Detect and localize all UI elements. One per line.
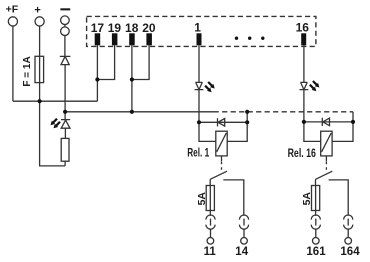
switch blade Rel16 [316, 171, 333, 179]
wire 1 down to LED1 [198, 45, 200, 82]
freewheeling diode line Rel16 [304, 121, 353, 123]
connector 11 (plug/socket arcs) [206, 215, 215, 220]
terminal +F [0, 0, 1, 1]
wire +F to bus1 [12, 26, 14, 101]
terminal circle 14 [241, 238, 248, 245]
terminal circle 161 [313, 238, 320, 245]
terminal - (double circle) [61, 16, 70, 25]
LED16 arrows [313, 81, 320, 88]
wire + to fuse [39, 26, 41, 56]
junction bus1/fuse [38, 99, 42, 103]
LED power arrows [51, 119, 58, 126]
wire through fuse F1 [39, 56, 41, 101]
bus2 corner down to Rel16 loop [352, 112, 354, 122]
svg-text:+F: +F [6, 4, 19, 16]
wire through fuse Rel1 [209, 186, 211, 211]
coil loop right Rel1 [227, 122, 247, 141]
LED power indicator (bar top, triangle up, arrows left) [64, 112, 66, 120]
svg-text:19: 19 [108, 21, 122, 35]
wire 16 down to LED16 [303, 45, 305, 82]
terminal circle 164 [345, 238, 352, 245]
svg-text:164: 164 [340, 246, 360, 258]
contact right wire Rel16 [329, 180, 349, 216]
terminal 17 block [95, 33, 101, 45]
relay coil K16 [321, 131, 332, 156]
LED1 arrows [208, 82, 215, 89]
wire fuse to connector 161 [315, 211, 317, 216]
terminal 16 block [301, 33, 306, 45]
wire 17 down to bus1 [96, 45, 98, 101]
relay coil K1 [216, 131, 227, 156]
ellipsis dots between 1 and 16 [235, 37, 238, 40]
junction node A1 [197, 120, 201, 124]
diode V1 (bar top, triangle up) [60, 56, 71, 64]
junction node A16 [302, 120, 306, 124]
wire fuse branch down [40, 101, 66, 166]
wire node B1 up to bus2 [246, 112, 248, 123]
svg-text:5A: 5A [301, 192, 313, 206]
junction bus2/minus [63, 110, 67, 114]
mechanical link Rel16 (dashed) [325, 162, 327, 171]
wire pivot to fuse 5A Rel1 [209, 179, 211, 185]
svg-text:1: 1 [194, 21, 201, 35]
terminal 20 block [146, 33, 152, 45]
terminal 18 block [129, 33, 135, 45]
svg-text:161: 161 [306, 246, 326, 258]
coil loop right Rel16 [332, 122, 353, 141]
svg-text:Rel. 1: Rel. 1 [187, 148, 209, 160]
terminal + [35, 17, 44, 26]
junction node B16 [351, 120, 355, 124]
dashed module box [87, 16, 316, 46]
coil loop left Rel1 [199, 122, 216, 141]
svg-text:18: 18 [125, 21, 139, 35]
connector 164 (plug/socket arcs) [344, 215, 353, 220]
wire resistor to return [64, 161, 66, 166]
terminal 1 block [197, 33, 202, 45]
svg-text:17: 17 [91, 21, 105, 35]
svg-text:Rel. 16: Rel. 16 [288, 148, 316, 160]
bus2 dashed continuation [219, 111, 353, 113]
wire - to diode V1 [64, 36, 66, 57]
fuse F1 body [35, 56, 44, 82]
svg-text:F = 1A: F = 1A [22, 56, 33, 86]
freewheeling diode line Rel1 [199, 121, 247, 123]
contact right wire Rel1 [223, 180, 244, 216]
junction 18 on bus2 [130, 110, 134, 114]
svg-text:11: 11 [204, 246, 217, 258]
coil K1 bottom stub [221, 156, 223, 161]
terminal circle 11 [207, 238, 214, 245]
wire 20 join 18 [132, 45, 149, 79]
wire LED1 to node A1 [198, 90, 200, 123]
diode D1 (bar left, triangle apex left) [218, 118, 225, 126]
wire pivot to fuse 5A Rel16 [315, 179, 317, 185]
fuse 5A Rel16 body [312, 186, 320, 211]
coil K16 bottom stub [325, 156, 327, 161]
junction node B1 [245, 120, 249, 124]
resistor R1 [61, 138, 69, 161]
junction node B1 top [245, 110, 249, 114]
wire fuse to connector 11 [209, 211, 211, 216]
junction 18/20 [130, 77, 134, 81]
LED16 (triangle down, bar bottom, arrows right) [300, 82, 309, 89]
connector 161 (plug/socket arcs) [311, 215, 320, 220]
label - [60, 8, 70, 10]
junction 17/19 [95, 77, 99, 81]
LED1 (triangle down, bar bottom, arrows right) [195, 82, 204, 89]
svg-text:5A: 5A [196, 192, 208, 206]
wire 18 down to bus2 [131, 45, 133, 112]
terminal 19 block [112, 33, 118, 45]
coil loop left Rel16 [304, 122, 321, 141]
svg-text:14: 14 [235, 246, 248, 258]
switch blade Rel1 [210, 171, 227, 179]
mechanical link Rel1 (dashed) [221, 162, 223, 171]
bus1 (+F fused rail) [13, 100, 98, 102]
wire through fuse Rel16 [315, 186, 317, 211]
connector 14 (plug/socket arcs) [239, 215, 248, 220]
svg-text:+: + [34, 5, 40, 17]
svg-text:20: 20 [142, 21, 156, 35]
svg-text:16: 16 [296, 21, 310, 35]
wire diode V1 to bus2 [64, 65, 66, 112]
fuse 5A Rel1 body [206, 186, 214, 211]
wire 19 join 17 [97, 45, 114, 79]
diode D16 (bar left, triangle apex left) [322, 118, 329, 126]
bus2 (minus rail, solid part) [65, 111, 219, 113]
wire LED16 to node A16 [303, 90, 305, 122]
